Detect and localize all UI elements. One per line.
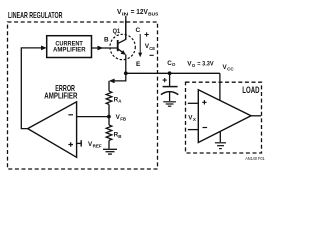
wire VFB to error amp inverting input [77, 116, 109, 118]
svg-text:B: B [104, 37, 109, 44]
wire load amp to ground [219, 132, 221, 142]
svg-text:E: E [136, 61, 141, 68]
svg-text:BUS: BUS [148, 11, 158, 16]
plus sign load input [202, 100, 206, 104]
wire collector [125, 20, 127, 39]
label VIN = 12VBUS [117, 9, 158, 16]
wire into RA [108, 81, 110, 91]
error amplifier triangle U1 [28, 102, 77, 158]
wire emitter down to rail [125, 55, 127, 74]
resistor RB [106, 125, 112, 140]
emitter arrowhead [121, 50, 126, 55]
svg-text:C: C [136, 27, 141, 34]
svg-text:FB: FB [120, 117, 127, 122]
current amplifier block [47, 36, 92, 58]
svg-text:CE: CE [149, 46, 155, 51]
feedback tap wire with arrow [111, 73, 126, 81]
node VFB [107, 115, 111, 119]
svg-text:= 12V: = 12V [131, 9, 148, 16]
plus sign CO [163, 78, 167, 82]
load op-amp triangle [198, 90, 251, 143]
minus sign VCE [150, 54, 154, 56]
svg-text:AN140 F01: AN140 F01 [245, 156, 265, 161]
ground below load amp [215, 143, 226, 149]
svg-text:Q1: Q1 [113, 28, 121, 35]
wire load + input stub [188, 102, 199, 104]
wire current amplifier to base [92, 47, 118, 49]
label VO = 3.3V [187, 60, 214, 67]
wire VREF to error amp non-inverting input [77, 142, 82, 144]
arrowhead into current amplifier [41, 46, 47, 51]
wire VFB node to RB [108, 117, 110, 125]
svg-text:AMPLIFIER: AMPLIFIER [53, 47, 86, 54]
output rail wire [126, 72, 220, 74]
transistor dashed circle [110, 34, 135, 59]
svg-text:O: O [172, 62, 176, 67]
junction node CO [168, 71, 172, 75]
VREF terminal tick [80, 140, 82, 146]
plus sign VCE [145, 32, 149, 36]
load dashed box [186, 82, 262, 153]
svg-text:LOAD: LOAD [242, 84, 259, 95]
capacitor CO [169, 73, 171, 86]
linear regulator dashed box [8, 22, 158, 169]
minus sign load input [203, 127, 208, 129]
wire RA to VFB node [108, 104, 110, 116]
svg-text:= 3.3V: = 3.3V [197, 60, 214, 67]
wire CO to ground [169, 92, 171, 101]
svg-text:CC: CC [227, 66, 234, 71]
VCE arrow [139, 34, 141, 54]
plus sign error amp input [68, 142, 73, 147]
transistor Q1 [118, 39, 127, 54]
minus sign error amp input [68, 114, 73, 116]
svg-text:O: O [192, 63, 196, 68]
wire rail corner down to load amp [219, 73, 221, 100]
svg-text:LINEAR REGULATOR: LINEAR REGULATOR [8, 10, 63, 20]
wire load - input stub [188, 129, 199, 131]
svg-text:REF: REF [93, 144, 102, 149]
wire error amp output to current amplifier input [21, 48, 41, 129]
wire RB to ground [108, 140, 110, 148]
junction node emitter/rail [124, 71, 128, 75]
ground below RB [103, 149, 117, 154]
resistor RA [106, 91, 112, 104]
wire VIN to collector [125, 16, 127, 40]
ground below CO [163, 102, 176, 106]
arrowhead on base wire [98, 46, 104, 51]
svg-text:AMPLIFIER: AMPLIFIER [44, 91, 77, 101]
svg-text:X: X [193, 117, 196, 122]
svg-text:IN: IN [122, 11, 129, 16]
wire load amp output [251, 115, 261, 117]
